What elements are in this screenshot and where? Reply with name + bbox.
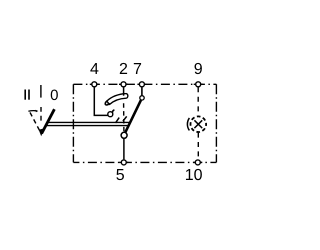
solid joint at rocker pivot tip	[39, 128, 45, 136]
switch housing outline (dash-dot box) top edge	[73, 83, 216, 85]
wire stub below terminal 7	[141, 87, 143, 95]
latch tick right on link bar	[123, 116, 127, 121]
pivot contact circle (terminal 5)	[121, 132, 127, 138]
rocker actuator lever (thick, position 0)	[42, 109, 55, 133]
dashed wire from terminal 2 to pivot (alternate position)	[123, 103, 125, 131]
terminal 4 circle	[92, 82, 97, 87]
lamp reflector arc	[187, 118, 189, 130]
lamp L1 dashed circle	[191, 116, 207, 132]
position label II	[24, 90, 26, 100]
dashed rocker position II line	[30, 112, 41, 133]
lamp X stroke 1	[194, 120, 202, 128]
arrowhead of small motion arrow	[112, 111, 114, 113]
svg-text:0: 0	[50, 87, 58, 104]
terminal 2 stub visible inside bridge cap	[123, 93, 125, 95]
terminal 10 circle	[195, 160, 200, 165]
terminal 9 circle	[196, 82, 201, 87]
mechanical link bar upper line	[47, 121, 131, 123]
moving bridge contact (crescent ribbon)	[107, 94, 128, 105]
switch housing outline left edge	[72, 84, 74, 162]
lamp X stroke 2	[194, 120, 202, 128]
small motion arrow above contact of 4	[112, 110, 114, 112]
stub at terminal 4	[90, 83, 99, 85]
svg-text:10: 10	[185, 167, 203, 184]
stub at terminal 9	[194, 83, 203, 85]
wire from terminal 4 down and right to fixed contact	[94, 87, 108, 115]
svg-text:4: 4	[90, 61, 99, 78]
terminal 2 circle	[121, 82, 126, 87]
svg-text:7: 7	[133, 61, 142, 78]
wire stub below terminal 2	[123, 87, 125, 95]
stub at terminal 10	[193, 161, 202, 163]
dashed wire lamp to terminal 10	[197, 133, 199, 160]
switch lever from contact 7 to pivot	[125, 100, 140, 132]
mechanical link bar lower line	[45, 125, 129, 127]
svg-text:9: 9	[194, 61, 203, 78]
terminal 7 circle	[139, 82, 144, 87]
svg-text:5: 5	[116, 167, 125, 184]
momentary return arrowhead	[36, 110, 39, 113]
fixed contact circle of terminal 4	[108, 112, 113, 117]
stub at terminal 5	[119, 161, 128, 163]
momentary return arrow line	[28, 110, 36, 113]
dashed wire terminal 9 to lamp	[197, 87, 199, 116]
curl at crescent left end	[105, 101, 108, 105]
switch housing outline bottom edge	[73, 161, 216, 163]
dashed rocker position I line	[40, 107, 42, 124]
wire from pivot to terminal 5	[123, 139, 125, 160]
stub at terminal 2	[119, 83, 128, 85]
switch housing outline right edge	[215, 84, 217, 162]
stub at terminal 7	[137, 83, 146, 85]
fixed contact circle of terminal 7	[140, 96, 144, 100]
terminal 5 circle	[121, 160, 126, 165]
latch tick left on link bar	[116, 118, 120, 123]
arrowhead at crescent curl	[107, 102, 110, 105]
position label I	[40, 85, 41, 98]
svg-text:2: 2	[119, 61, 128, 78]
